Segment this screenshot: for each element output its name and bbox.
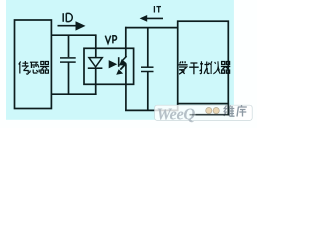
受 xyxy=(179,61,188,74)
light arrow 1 head xyxy=(119,59,126,65)
感 xyxy=(29,62,39,73)
capacitor C1 plates xyxy=(60,57,76,59)
wire: sensor bottom return xyxy=(51,93,96,95)
current IT arrow xyxy=(147,17,164,19)
instrument left stub xyxy=(177,104,179,112)
capacitor C2 top lead xyxy=(147,28,149,67)
diode VD cathode lead xyxy=(95,68,97,95)
干 xyxy=(189,63,199,74)
diode VD cathode bar xyxy=(88,67,103,69)
传 xyxy=(19,61,29,74)
text 受干扰仪器 xyxy=(179,61,231,74)
维 xyxy=(224,106,235,117)
instrument box 受干扰仪器 xyxy=(178,21,229,103)
wire: LED anode drop xyxy=(95,34,97,57)
wire: top right to instrument xyxy=(125,27,178,29)
wire: bottom right rail xyxy=(125,109,178,111)
optocoupler package box VP xyxy=(84,48,134,84)
current ID arrow xyxy=(58,25,78,27)
photodiode bar xyxy=(118,57,120,67)
仪 xyxy=(210,61,220,74)
sensor box 传感器 xyxy=(15,20,52,109)
diode VD triangle xyxy=(89,58,102,67)
watermark white box xyxy=(155,105,253,120)
light arrow 1 shaft xyxy=(122,56,127,61)
label ID xyxy=(63,13,72,22)
svg-text:WeeQ: WeeQ xyxy=(157,104,196,123)
watermark 维库 glyphs xyxy=(224,105,247,117)
扰 xyxy=(200,61,210,74)
light arrow 2 shaft xyxy=(120,64,125,70)
cyan canvas background xyxy=(6,0,234,120)
label IT xyxy=(154,6,161,13)
capacitor C1 bottom lead xyxy=(68,62,70,94)
light arrow 2 head xyxy=(116,69,123,75)
label VP xyxy=(105,36,116,44)
wire: photo side top drop xyxy=(125,27,127,58)
watermark oo circles xyxy=(206,108,212,114)
capacitor C1 top lead xyxy=(68,35,70,57)
ground segment under instrument xyxy=(190,114,197,116)
器 xyxy=(221,62,230,74)
库 xyxy=(237,105,247,117)
photo element bottom lead xyxy=(125,64,127,110)
wire: sensor top output to LED anode xyxy=(51,34,95,36)
photodiode triangle (filled, pointing right) xyxy=(109,60,118,68)
capacitor C2 bottom lead xyxy=(147,72,149,111)
text 传感器 xyxy=(19,61,49,74)
capacitor C2 plates xyxy=(141,66,154,68)
instrument right stub xyxy=(227,104,229,116)
器 xyxy=(40,62,49,74)
